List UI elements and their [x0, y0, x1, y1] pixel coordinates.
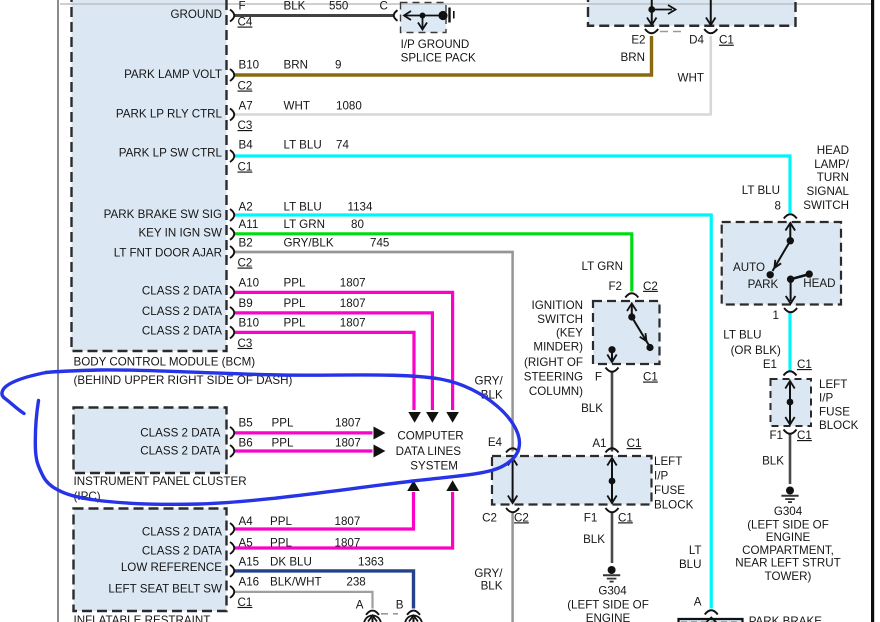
- headlamp common dot: [787, 237, 794, 244]
- svg-text:A5: A5: [239, 536, 253, 549]
- svg-text:ENGINE: ENGINE: [586, 612, 631, 622]
- park brake box solid border: [679, 619, 743, 622]
- svg-text:A15: A15: [239, 556, 260, 569]
- svg-text:LT BLU: LT BLU: [723, 329, 761, 342]
- svg-text:TURN: TURN: [817, 171, 849, 184]
- svg-text:F1: F1: [769, 429, 783, 442]
- SDM module box fill: [74, 509, 227, 612]
- svg-text:SPLICE PACK: SPLICE PACK: [401, 52, 476, 65]
- svg-text:1807: 1807: [340, 276, 366, 289]
- svg-text:B: B: [396, 599, 404, 612]
- svg-text:C1: C1: [618, 511, 633, 524]
- ignition switch internals: [607, 304, 650, 363]
- svg-text:BLK: BLK: [581, 402, 603, 415]
- svg-text:INSTRUMENT PANEL CLUSTER: INSTRUMENT PANEL CLUSTER: [74, 475, 247, 488]
- svg-text:1080: 1080: [336, 99, 362, 112]
- svg-text:CLASS 2 DATA: CLASS 2 DATA: [142, 325, 222, 338]
- annotation: blue hand-drawn loop: [35, 370, 519, 504]
- BCM module box fill: [72, 0, 227, 351]
- E2 bump: [645, 29, 658, 33]
- inflatable restraint connector dashed line: [381, 613, 398, 615]
- svg-text:PARK BRAKE: PARK BRAKE: [749, 615, 823, 622]
- svg-text:LT BLU: LT BLU: [742, 184, 780, 197]
- svg-text:PPL: PPL: [284, 316, 306, 329]
- center fuse block box fill: [492, 456, 652, 505]
- A1 bump above center fuse block: [606, 448, 619, 452]
- svg-text:STEERING: STEERING: [524, 371, 583, 384]
- svg-text:74: 74: [336, 139, 349, 152]
- svg-text:PARK LP RLY CTRL: PARK LP RLY CTRL: [116, 108, 223, 121]
- svg-text:CLASS 2 DATA: CLASS 2 DATA: [142, 305, 222, 318]
- F2/C2 bump above ignition box: [625, 293, 638, 297]
- svg-text:GRY/: GRY/: [474, 567, 503, 580]
- splice pack dashed border: [401, 3, 447, 33]
- svg-text:A10: A10: [239, 276, 260, 289]
- svg-text:CLASS 2 DATA: CLASS 2 DATA: [140, 445, 220, 458]
- right fuse block dashed border: [771, 379, 812, 426]
- wire BRN 9 horizontal: [235, 73, 653, 76]
- svg-text:238: 238: [346, 576, 365, 589]
- headlamp top bump: [784, 214, 797, 218]
- svg-text:HEAD: HEAD: [817, 144, 849, 157]
- svg-text:GRY/BLK: GRY/BLK: [284, 236, 334, 249]
- top module internal: junction dot with right arrow and vertical lines: [647, 0, 716, 25]
- F/C1 bump below ignition box: [606, 368, 619, 372]
- wire PPL 1807 B9: [235, 313, 432, 410]
- IPC module box dashed border: [74, 408, 227, 474]
- ignition switch box fill: [593, 301, 660, 364]
- svg-text:A: A: [356, 599, 364, 612]
- svg-text:HEAD: HEAD: [803, 277, 835, 290]
- svg-text:LT GRN: LT GRN: [284, 218, 325, 231]
- ignition switch box dashed border: [593, 301, 660, 364]
- svg-text:A4: A4: [239, 515, 254, 528]
- svg-text:C1: C1: [238, 161, 253, 174]
- svg-text:C1: C1: [797, 429, 812, 442]
- svg-text:C1: C1: [643, 371, 658, 384]
- wire PPL 1807 A4: [235, 492, 414, 529]
- svg-text:LT FNT DOOR AJAR: LT FNT DOOR AJAR: [114, 247, 222, 260]
- connector bumps on left boxes: [230, 10, 398, 598]
- svg-text:8: 8: [775, 200, 781, 213]
- splice pack box fill: [401, 3, 447, 33]
- svg-text:SIGNAL: SIGNAL: [806, 185, 849, 198]
- top module box fill: [588, 0, 796, 26]
- top module box dashed border: [588, 0, 796, 26]
- connector dashes between E2 and D4: [660, 31, 686, 33]
- svg-text:G304: G304: [598, 584, 627, 597]
- wire LT BLU 1134 vertical to park brake: [710, 215, 713, 609]
- svg-text:CLASS 2 DATA: CLASS 2 DATA: [142, 285, 222, 298]
- svg-text:(RIGHT OF: (RIGHT OF: [524, 356, 583, 369]
- svg-text:BRN: BRN: [284, 58, 308, 71]
- svg-text:BLK: BLK: [762, 455, 784, 468]
- A bump above park brake box: [705, 610, 718, 614]
- svg-text:1807: 1807: [335, 515, 361, 528]
- splice pack internals: left arrow, junction dot, down arrow, splice dot, bars: [404, 11, 443, 30]
- right page border: [871, 0, 874, 622]
- svg-text:BODY CONTROL MODULE (BCM): BODY CONTROL MODULE (BCM): [74, 355, 256, 368]
- svg-text:LAMP/: LAMP/: [814, 158, 850, 171]
- svg-text:E1: E1: [763, 358, 777, 371]
- svg-text:550: 550: [329, 0, 348, 13]
- wire PPL 1807 A5: [235, 492, 453, 548]
- wire GRY/BLK vertical to fuse block E4: [511, 252, 514, 452]
- svg-text:745: 745: [370, 236, 389, 249]
- svg-text:COMPUTER: COMPUTER: [397, 429, 463, 442]
- G304 ground symbol (center): [608, 566, 616, 574]
- wire BLK ignition to fuse block: [611, 371, 614, 452]
- svg-text:BRN: BRN: [621, 51, 645, 64]
- headlamp switch internals: [773, 223, 810, 304]
- svg-text:1807: 1807: [335, 417, 361, 430]
- svg-text:FUSE: FUSE: [819, 405, 850, 418]
- E1 bump above right fuse block: [784, 371, 797, 375]
- headlamp switch box fill: [722, 222, 841, 305]
- svg-text:BLK/WHT: BLK/WHT: [270, 576, 322, 589]
- COMPUTER DATA LINES SYSTEM arrows down: [408, 412, 421, 423]
- svg-text:PPL: PPL: [284, 276, 306, 289]
- svg-text:CLASS 2 DATA: CLASS 2 DATA: [142, 526, 222, 539]
- BCM module box dashed border: [72, 0, 227, 351]
- svg-text:1807: 1807: [340, 316, 366, 329]
- SDM module box dashed border: [74, 509, 227, 612]
- park brake box fill: [679, 620, 742, 622]
- wire LT BLU 74 vertical to headlamp switch: [788, 156, 791, 213]
- svg-text:I/P: I/P: [819, 392, 833, 405]
- arrows up from A4 A5: [407, 480, 420, 491]
- svg-text:C2: C2: [482, 511, 497, 524]
- svg-text:C3: C3: [238, 119, 253, 132]
- svg-text:(OR BLK): (OR BLK): [731, 344, 781, 357]
- wire LT GRN 80 horizontal: [235, 232, 633, 235]
- svg-text:C: C: [380, 0, 388, 13]
- wire BLK 550 (GROUND row): [235, 14, 393, 17]
- svg-text:PARK: PARK: [748, 278, 779, 291]
- svg-text:IGNITION: IGNITION: [531, 299, 583, 312]
- svg-text:C2: C2: [643, 280, 658, 293]
- svg-text:LEFT: LEFT: [819, 378, 847, 391]
- wire GRY/BLK vertical below fuse block C2: [511, 513, 514, 622]
- wire PPL 1807 A10: [235, 292, 453, 410]
- svg-text:PPL: PPL: [272, 417, 294, 430]
- svg-text:D4: D4: [689, 34, 704, 47]
- svg-text:CLASS 2 DATA: CLASS 2 DATA: [142, 545, 222, 558]
- svg-text:AUTO: AUTO: [733, 261, 765, 274]
- svg-text:C2: C2: [238, 257, 253, 270]
- svg-text:C3: C3: [238, 337, 253, 350]
- svg-text:B9: B9: [239, 297, 253, 310]
- svg-text:A11: A11: [239, 218, 259, 231]
- svg-text:LEFT: LEFT: [654, 455, 682, 468]
- park brake internal arrow: [707, 618, 717, 622]
- svg-text:(KEY: (KEY: [556, 326, 583, 339]
- svg-text:C2: C2: [514, 511, 529, 524]
- svg-text:FUSE: FUSE: [654, 484, 685, 497]
- svg-text:C1: C1: [797, 358, 812, 371]
- svg-text:9: 9: [335, 58, 341, 71]
- center fuse block internals: E4-C2 arrow: [508, 458, 617, 503]
- right fuse block fuse dot: [787, 399, 794, 406]
- headlamp bottom bump (pin 1): [784, 308, 797, 312]
- svg-text:C1: C1: [238, 596, 253, 609]
- svg-text:80: 80: [351, 218, 364, 231]
- center fuse block fuse dot: [609, 478, 616, 485]
- svg-text:A2: A2: [239, 201, 253, 214]
- svg-text:1134: 1134: [348, 201, 373, 214]
- svg-text:INFLATABLE RESTRAINT: INFLATABLE RESTRAINT: [74, 614, 211, 622]
- svg-text:TOWER): TOWER): [765, 570, 812, 583]
- B bump above squib: [407, 611, 420, 615]
- svg-text:(LEFT SIDE OF: (LEFT SIDE OF: [747, 518, 829, 531]
- svg-text:DK BLU: DK BLU: [270, 556, 312, 569]
- svg-text:B10: B10: [239, 58, 260, 71]
- svg-text:LT GRN: LT GRN: [582, 260, 623, 273]
- svg-text:E4: E4: [488, 436, 503, 449]
- svg-text:I/P: I/P: [654, 470, 668, 483]
- svg-text:A7: A7: [239, 99, 253, 112]
- svg-text:PARK LP SW CTRL: PARK LP SW CTRL: [119, 147, 223, 160]
- annotation: blue hook stroke: [2, 373, 46, 414]
- svg-text:BLK: BLK: [284, 0, 306, 13]
- headlamp AUTO contact dot: [767, 271, 774, 278]
- D4 bump: [704, 29, 717, 33]
- E4 bump above center fuse block: [506, 448, 519, 452]
- svg-text:SWITCH: SWITCH: [803, 199, 849, 212]
- right fuse block box fill: [771, 379, 812, 426]
- svg-text:COMPARTMENT,: COMPARTMENT,: [742, 544, 834, 557]
- svg-text:PPL: PPL: [270, 515, 292, 528]
- svg-text:COLUMN): COLUMN): [529, 385, 583, 398]
- left page border: [57, 0, 59, 622]
- wire BLK fuse block to G304: [611, 513, 614, 563]
- wire WHT vertical from D4: [709, 36, 712, 116]
- wire LT BLU 1134 horizontal: [235, 213, 713, 216]
- F1 bump below center fuse block: [606, 508, 619, 512]
- svg-text:PPL: PPL: [284, 297, 306, 310]
- svg-text:B2: B2: [239, 236, 253, 249]
- svg-text:SWITCH: SWITCH: [537, 313, 583, 326]
- svg-text:B4: B4: [239, 139, 254, 152]
- headlamp switch box dashed border: [722, 222, 841, 305]
- svg-text:ENGINE: ENGINE: [766, 531, 811, 544]
- svg-text:I/P GROUND: I/P GROUND: [401, 38, 470, 51]
- svg-text:C2: C2: [238, 80, 253, 93]
- svg-text:C4: C4: [238, 16, 253, 29]
- svg-text:1807: 1807: [335, 436, 361, 449]
- wire WHT 1080 horizontal: [235, 113, 711, 116]
- wire BLK right fuse block to G304: [789, 435, 792, 485]
- svg-text:NEAR LEFT STRUT: NEAR LEFT STRUT: [735, 557, 840, 570]
- svg-text:(LEFT SIDE OF: (LEFT SIDE OF: [567, 598, 649, 611]
- IPC module box fill: [74, 408, 227, 474]
- wire BLK/WHT 238: [235, 592, 373, 609]
- svg-text:GROUND: GROUND: [170, 8, 222, 21]
- svg-text:KEY IN IGN SW: KEY IN IGN SW: [138, 227, 222, 240]
- svg-text:A: A: [694, 596, 702, 609]
- svg-text:PARK BRAKE SW SIG: PARK BRAKE SW SIG: [104, 208, 222, 221]
- svg-text:LT BLU: LT BLU: [284, 139, 322, 152]
- svg-text:E2: E2: [631, 34, 645, 47]
- svg-text:BLK: BLK: [481, 579, 503, 592]
- arrows right from B5 B6: [374, 427, 386, 440]
- squib circles at bottom (inflatable restraint): [364, 616, 422, 622]
- svg-text:F: F: [595, 371, 602, 384]
- svg-text:GRY/: GRY/: [475, 374, 504, 387]
- wire PPL 1807 B5: [235, 431, 373, 434]
- svg-text:1807: 1807: [335, 536, 361, 549]
- wire GRY/BLK 745 horizontal: [235, 251, 514, 254]
- svg-text:A1: A1: [592, 437, 606, 450]
- vertical connector bumps: [366, 29, 797, 615]
- svg-text:CLASS 2 DATA: CLASS 2 DATA: [140, 426, 220, 439]
- svg-text:LT: LT: [689, 544, 702, 557]
- wire PPL 1807 B6: [235, 449, 373, 452]
- center fuse block dashed border: [492, 456, 652, 505]
- wire DK BLU 1363: [235, 571, 414, 609]
- F1/C1 bump below right fuse block: [784, 430, 797, 434]
- svg-text:B6: B6: [239, 436, 253, 449]
- svg-text:BLU: BLU: [679, 558, 702, 571]
- wire BRN vertical from E2: [650, 36, 653, 77]
- svg-text:LT BLU: LT BLU: [284, 201, 322, 214]
- svg-text:PPL: PPL: [272, 436, 294, 449]
- wire PPL 1807 B10: [235, 332, 414, 410]
- svg-text:1: 1: [773, 309, 779, 322]
- headlamp HEAD contact dots: [787, 276, 794, 283]
- svg-text:BLOCK: BLOCK: [819, 419, 859, 432]
- svg-text:C1: C1: [627, 437, 642, 450]
- C2 bump below center fuse block: [506, 508, 519, 512]
- park brake box inner dashed line: [681, 621, 740, 622]
- svg-text:1363: 1363: [358, 556, 384, 569]
- wire LT BLU (OR BLK) switch to E1: [788, 312, 791, 373]
- svg-text:F2: F2: [608, 280, 622, 293]
- A bump above squib: [366, 611, 379, 615]
- svg-text:B10: B10: [239, 316, 260, 329]
- wire LT GRN vertical to ignition switch: [630, 234, 633, 292]
- svg-text:BLOCK: BLOCK: [654, 499, 694, 512]
- splice pack female connector: [394, 10, 398, 21]
- svg-text:DATA LINES: DATA LINES: [396, 445, 462, 458]
- top gray rule: [60, 3, 871, 5]
- svg-text:A16: A16: [239, 576, 260, 589]
- svg-text:C1: C1: [719, 34, 734, 47]
- svg-text:B5: B5: [239, 417, 253, 430]
- svg-text:LOW REFERENCE: LOW REFERENCE: [121, 561, 222, 574]
- svg-text:G304: G304: [774, 505, 803, 518]
- svg-text:PPL: PPL: [270, 536, 292, 549]
- right fuse block internals: [785, 381, 794, 425]
- svg-text:LEFT SEAT BELT SW: LEFT SEAT BELT SW: [108, 583, 222, 596]
- svg-text:1807: 1807: [340, 297, 366, 310]
- G304 ground symbol (right): [786, 487, 794, 495]
- svg-text:MINDER): MINDER): [533, 340, 583, 353]
- svg-text:PARK LAMP VOLT: PARK LAMP VOLT: [124, 68, 222, 81]
- svg-text:WHT: WHT: [678, 72, 704, 85]
- wire LT BLU 74 horizontal: [235, 154, 792, 157]
- svg-text:WHT: WHT: [284, 99, 310, 112]
- svg-text:SYSTEM: SYSTEM: [410, 459, 458, 472]
- svg-text:BLK: BLK: [583, 533, 605, 546]
- svg-text:F: F: [239, 0, 246, 13]
- svg-text:F1: F1: [584, 511, 598, 524]
